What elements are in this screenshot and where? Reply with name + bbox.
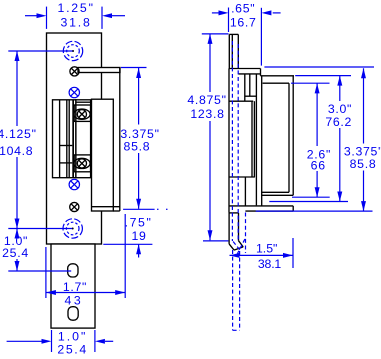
thick bar: [72, 100, 74, 178]
slot hole 1: [68, 264, 78, 277]
side keeper box: [261, 76, 295, 206]
svg-text:16.7: 16.7: [230, 16, 257, 30]
svg-text:104.8: 104.8: [0, 144, 33, 158]
blue screw bottom: [69, 179, 79, 189]
strike body left stack: [53, 100, 76, 178]
svg-text:31.8: 31.8: [61, 16, 92, 30]
dimension 1.0"/25.4 bottom: [7, 330, 114, 357]
side faceplate edges: [229, 69, 261, 213]
mounting hole top: [63, 41, 82, 60]
latch column: [74, 100, 90, 178]
mounting tab: [51, 244, 95, 328]
dimension 2.6"/66: [291, 83, 331, 197]
svg-text:1.0": 1.0": [58, 330, 87, 344]
dimension 4.125"/104.8 left: [0, 51, 73, 229]
side latch verticals: [230, 101, 255, 206]
dimension 1.0"/25.4 left lower: [2, 229, 71, 272]
dimension 1.5"/38.1: [230, 238, 294, 271]
keeper top rail: [78, 68, 120, 73]
svg-text:25.4: 25.4: [2, 246, 29, 260]
dimension 3.0"/76.2: [269, 76, 352, 202]
svg-text:25.4: 25.4: [57, 343, 87, 357]
side lip: [229, 213, 243, 250]
svg-text:76.2: 76.2: [325, 115, 352, 129]
hidden lines in plate: [232, 41, 238, 241]
svg-text:38.1: 38.1: [258, 257, 281, 271]
svg-text:66: 66: [311, 159, 326, 173]
dimension 1.7"/43: [46, 214, 125, 308]
keeper panel: [92, 68, 120, 212]
latch screw top: [74, 109, 90, 119]
svg-text:123.8: 123.8: [190, 107, 224, 121]
svg-text:1.25": 1.25": [57, 1, 94, 15]
mounting hole bottom: [63, 219, 82, 238]
dimension .75"/19: [103, 215, 152, 257]
dimension .65"/16.7: [212, 2, 281, 66]
hidden lip tail: [233, 213, 246, 331]
svg-text:4.875": 4.875": [187, 93, 226, 107]
svg-text:4.125": 4.125": [0, 127, 37, 141]
side top tab: [229, 34, 238, 68]
dimension 4.875"/123.8: [187, 34, 228, 241]
svg-text:85.8: 85.8: [124, 140, 151, 154]
svg-text:.75": .75": [125, 215, 153, 229]
side body bottom: [229, 206, 293, 211]
svg-text:1.7": 1.7": [63, 280, 87, 294]
faceplate: [47, 33, 102, 244]
blue screw top: [69, 87, 79, 97]
svg-text:3.0": 3.0": [328, 102, 352, 116]
svg-text:85.8: 85.8: [350, 157, 377, 171]
side small box: [245, 74, 257, 206]
latch screw bottom: [74, 158, 90, 168]
black screw bottom: [70, 202, 79, 211]
svg-text:1.5": 1.5": [256, 241, 277, 255]
side latch thick line: [229, 100, 254, 102]
svg-text:19: 19: [131, 229, 146, 243]
slot hole 2: [68, 307, 78, 321]
svg-text:.65": .65": [231, 2, 255, 16]
dimension 3.375"/85.8 side: [256, 67, 381, 211]
black screw top: [70, 67, 79, 76]
dimension 1.25"/31.8 top: [25, 1, 125, 30]
dimension 3.375"/85.8 front: [120, 68, 167, 210]
svg-text:43: 43: [65, 294, 84, 308]
